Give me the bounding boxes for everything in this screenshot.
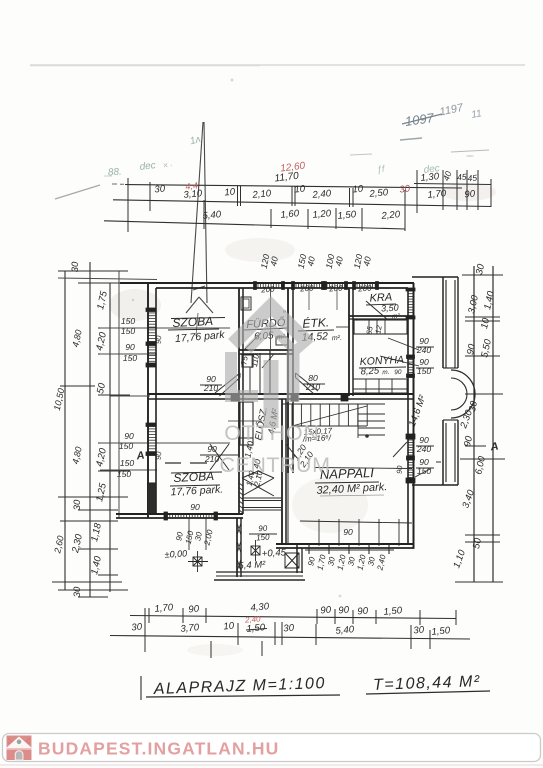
svg-text:90: 90 — [357, 606, 369, 618]
scan speck 3 — [466, 155, 474, 157]
top outer wall — [120, 282, 414, 284]
porch door X box — [285, 553, 299, 568]
svg-text:4,30: 4,30 — [250, 601, 270, 614]
right wall window hatch nappali — [409, 440, 413, 478]
right wall window end blocks — [406, 288, 415, 291]
bottom wall left section — [116, 513, 243, 515]
svg-text:1,30: 1,30 — [420, 171, 440, 184]
wc door — [262, 354, 274, 368]
left wall window end blocks bottom — [146, 423, 156, 427]
fürdő fixture top-left — [241, 297, 251, 310]
hall small dim line — [228, 420, 262, 422]
svg-text:150: 150 — [417, 366, 432, 376]
watermark text otthon — [224, 421, 320, 445]
nappali window pointer — [393, 442, 407, 457]
hall inner lines — [238, 473, 240, 514]
svg-text:2,50: 2,50 — [368, 187, 389, 200]
fürdő counter rect — [276, 337, 288, 345]
svg-text:90: 90 — [188, 604, 200, 616]
svg-text:150: 150 — [120, 458, 135, 468]
interior wall fürdő right x=290 — [287, 288, 289, 473]
konyha pointer diagonals to right labels — [380, 338, 419, 366]
right terrace wall upper — [442, 277, 444, 368]
svg-text:4,4: 4,4 — [185, 180, 199, 191]
svg-text:OTTHON: OTTHON — [224, 421, 320, 445]
svg-text:90: 90 — [207, 444, 217, 454]
svg-text:dec: dec — [139, 160, 156, 173]
nappali bottom inner ticks — [319, 519, 399, 546]
bottom dim line 2 — [110, 636, 470, 640]
right semicircle bay outer arc — [451, 370, 475, 418]
svg-text:90: 90 — [394, 369, 402, 376]
svg-text:11: 11 — [470, 108, 482, 121]
bottom dim ticks — [148, 608, 150, 623]
left wall window hatch bottom room — [149, 426, 156, 452]
left dim line third — [109, 283, 111, 592]
svg-text:240: 240 — [416, 345, 432, 355]
svg-text:240: 240 — [416, 444, 432, 454]
svg-text:CENTRUM: CENTRUM — [220, 453, 331, 477]
svg-text:8,25: 8,25 — [360, 365, 380, 377]
hall door jamb squares — [231, 394, 238, 401]
footer house icon window circle — [17, 739, 22, 744]
faint bottom page edge — [0, 764, 543, 766]
watermark text centrum — [220, 453, 331, 477]
wc fixture box — [242, 355, 253, 367]
svg-text:5,40: 5,40 — [335, 624, 355, 637]
svg-text:ÉTK.: ÉTK. — [302, 314, 329, 330]
nappali label — [314, 468, 412, 469]
svg-text:90: 90 — [320, 605, 332, 617]
left small dim lines top room — [100, 327, 230, 329]
top dimension line 1 dashes left — [112, 183, 124, 185]
level marker symbol 1 — [193, 557, 202, 566]
etk window extension lines — [308, 288, 310, 310]
right semicircle bay inner arc — [451, 378, 467, 410]
terrace hatch below nappali — [309, 544, 389, 554]
scan speck 1 — [231, 79, 234, 82]
svg-text:3,70: 3,70 — [180, 622, 200, 635]
svg-text:1,50: 1,50 — [337, 209, 357, 222]
footer house icon gable shadow line — [7, 749, 32, 751]
konyha bottom separate — [353, 388, 408, 390]
svg-text:10: 10 — [294, 184, 306, 196]
etk dotted leader — [336, 326, 348, 328]
svg-text:2,10: 2,10 — [251, 188, 272, 201]
svg-text:SZOBA: SZOBA — [172, 314, 213, 330]
scan smudge wash 3 — [187, 644, 243, 656]
svg-text:30: 30 — [70, 261, 81, 272]
svg-text:150: 150 — [121, 326, 136, 336]
svg-text:210: 210 — [204, 454, 220, 464]
svg-text:210: 210 — [305, 382, 321, 392]
svg-text:A: A — [135, 450, 146, 463]
pencil dash below notes — [400, 138, 422, 140]
wc partition lines — [249, 367, 251, 394]
bottom dim line 1 — [130, 616, 456, 619]
svg-text:90: 90 — [190, 502, 200, 512]
fürdő door swing diagonal — [244, 333, 261, 350]
svg-text:30: 30 — [131, 622, 143, 634]
top wall window hatches — [258, 284, 375, 288]
right margin ticks — [462, 274, 503, 276]
bottom wall right section nappali — [276, 543, 415, 545]
svg-text:1,50: 1,50 — [383, 605, 403, 618]
szoba bottom below-wall vertical lines — [188, 518, 190, 550]
dash right of labels — [436, 461, 441, 463]
top dimension line 1 right extension — [414, 184, 491, 185]
faint top scan line — [30, 64, 525, 66]
svg-text:90: 90 — [395, 464, 405, 474]
top dim ticks — [149, 182, 151, 211]
svg-text:SZOBA: SZOBA — [173, 469, 214, 485]
svg-text:30: 30 — [399, 183, 412, 195]
watermark otthon centrum glyph — [231, 306, 310, 428]
svg-text:1,70: 1,70 — [427, 188, 447, 201]
footer house icon door — [15, 751, 23, 760]
svg-text:10: 10 — [352, 184, 364, 196]
svg-text:150: 150 — [119, 441, 134, 451]
fold spike line right — [204, 122, 207, 303]
scan speck 4 — [339, 595, 342, 598]
fold spike line left — [191, 122, 203, 303]
left margin ticks — [58, 270, 128, 272]
svg-text:2,20: 2,20 — [380, 209, 401, 222]
left outer wall band — [147, 283, 149, 518]
svg-text:10: 10 — [224, 187, 236, 199]
porch right wall — [296, 544, 298, 573]
svg-text:88.: 88. — [108, 167, 123, 179]
konyha counter cells — [353, 379, 407, 393]
right dim line outer — [492, 266, 494, 582]
left wall lower solid dark part — [148, 483, 157, 514]
fold spike arrowhead — [186, 286, 213, 313]
top wall window end blocks — [254, 282, 257, 290]
door hall to nappali diagonal — [286, 444, 297, 458]
hall left wall X hatch — [237, 523, 241, 571]
svg-text:45: 45 — [457, 172, 468, 183]
svg-text:1,60: 1,60 — [280, 208, 300, 221]
kra door diagonal — [366, 301, 388, 320]
level marker symbol 2 — [251, 546, 260, 555]
svg-text:90: 90 — [338, 605, 350, 617]
nappali bottom inner dim line — [300, 521, 412, 523]
szoba bottom right wall hatch — [239, 483, 243, 513]
svg-text:45: 45 — [467, 173, 478, 184]
footer house icon roof texture lines — [8, 738, 30, 745]
kra bottom wall y=317 — [349, 315, 408, 317]
svg-text:150: 150 — [117, 469, 132, 479]
section line A-A dashes — [165, 462, 207, 464]
left dim line outer 10,50 — [64, 271, 66, 590]
hall left wall below szoba — [236, 518, 238, 577]
svg-text:m²: m² — [392, 313, 401, 320]
szoba bottom door dim line — [200, 454, 240, 456]
title left tick — [140, 676, 142, 700]
svg-text:m.: m. — [382, 369, 390, 376]
left small dim lines bottom room — [100, 442, 230, 444]
pencil diagonal stroke left — [55, 185, 100, 199]
scan speck 2 — [132, 299, 134, 301]
svg-text:30: 30 — [72, 586, 83, 597]
footer house icon white gable — [6, 737, 33, 749]
left dim line second — [89, 262, 91, 597]
svg-text:5,40: 5,40 — [202, 209, 222, 222]
top dimension line 3 — [104, 221, 405, 229]
svg-text:200: 200 — [328, 284, 343, 294]
szoba top label — [171, 318, 225, 319]
svg-text:1,50: 1,50 — [431, 625, 451, 638]
hall closet strip left — [240, 402, 253, 445]
svg-text:90: 90 — [464, 189, 476, 201]
svg-text:30: 30 — [72, 499, 83, 510]
svg-text:210: 210 — [203, 383, 219, 393]
svg-text:150: 150 — [121, 316, 136, 326]
door hall to szoba diagonals — [215, 373, 240, 396]
top wall extension tick left — [58, 278, 157, 280]
right terrace wall lower — [442, 420, 444, 485]
interior wall left rooms divider x=241 — [238, 288, 240, 514]
hall lower door diagonals — [210, 444, 229, 470]
svg-text:30: 30 — [154, 184, 166, 196]
left wall window end blocks top — [146, 308, 156, 312]
hall step lines — [242, 497, 282, 499]
svg-text:1,20: 1,20 — [312, 208, 332, 221]
scan smudge wash 4 — [440, 183, 496, 201]
svg-text:90: 90 — [343, 527, 353, 537]
footer house icon red square — [7, 736, 32, 761]
svg-text:10: 10 — [223, 621, 235, 633]
nappali left wall — [281, 399, 283, 544]
mid horizontal wall y=396 — [148, 393, 414, 395]
footer bar rounded box — [3, 734, 541, 762]
svg-text:30: 30 — [283, 623, 295, 635]
fürdő window extension line — [270, 288, 272, 350]
stair run diagonal — [292, 406, 367, 426]
szoba bottom label — [171, 472, 222, 473]
right outer wall band — [413, 283, 415, 548]
svg-text:+0,45: +0,45 — [261, 547, 286, 559]
stair lower flight — [358, 414, 385, 435]
svg-text:5,4 M²: 5,4 M² — [238, 559, 266, 571]
left wall window hatch top room — [149, 310, 156, 364]
interior wall étk/konyha divider x=351 — [348, 288, 350, 396]
entry door X into hall — [242, 471, 274, 496]
stair treads — [292, 404, 367, 426]
svg-text:m².: m². — [332, 335, 343, 343]
konyha shaft rects — [354, 320, 407, 334]
door hall to etk diagonals — [296, 373, 319, 395]
top dimension line 1 — [125, 185, 462, 189]
svg-text:150: 150 — [123, 353, 138, 363]
bottom wall left window hatch — [167, 515, 215, 518]
faint mark right margin — [451, 150, 489, 152]
svg-text:90: 90 — [125, 342, 135, 352]
stair landing edge — [282, 403, 385, 405]
top dimension line 2 — [113, 200, 491, 207]
svg-text:30: 30 — [413, 625, 425, 637]
faint mark far left margin — [350, 154, 372, 155]
svg-text:A: A — [489, 441, 500, 454]
right dim line inner — [473, 266, 475, 582]
svg-text:±0,00: ±0,00 — [164, 548, 187, 559]
scan smudge wash 2 — [292, 477, 368, 533]
svg-text:1,70: 1,70 — [154, 602, 174, 615]
wall below fürdő y=352 — [239, 349, 293, 351]
svg-text:2,40: 2,40 — [311, 188, 332, 201]
scan smudge wash 5 — [225, 238, 295, 262]
strikethrough on 1,50 — [246, 629, 267, 631]
svg-text:150: 150 — [417, 466, 432, 476]
scan smudge wash 1 — [109, 289, 161, 321]
svg-text:90: 90 — [124, 431, 134, 441]
svg-text:3,50: 3,50 — [381, 303, 399, 314]
entry platform steps — [216, 571, 303, 573]
svg-text:BUDAPEST.INGATLAN.HU: BUDAPEST.INGATLAN.HU — [38, 739, 279, 759]
konyha right wall window hatch — [409, 360, 413, 373]
left extension line x119 — [118, 271, 120, 518]
right wall window hatch KRA level — [409, 291, 413, 315]
svg-text:× ·: × · — [162, 160, 173, 171]
spike lower tail — [196, 313, 198, 336]
svg-text:200: 200 — [260, 285, 275, 295]
